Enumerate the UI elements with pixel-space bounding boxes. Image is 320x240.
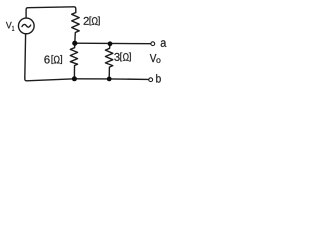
resistor R 2ohm zigzag (72, 13, 80, 44)
label 6[ohm] (44, 55, 62, 64)
wire bottom: to terminal b (74, 78, 148, 81)
label 3[ohm] (114, 53, 130, 62)
label 2[ohm] (84, 17, 100, 26)
junction node: 3ohm top (108, 41, 113, 46)
junction node: 2ohm bottom / 6ohm top (72, 41, 77, 46)
label a (161, 40, 167, 47)
wire middle: node to terminal a (75, 42, 151, 45)
terminal a circle (151, 42, 155, 46)
source V1 circle (18, 18, 34, 34)
wire top: source top to R 2ohm top (26, 7, 76, 18)
label Vo (150, 54, 161, 63)
resistor R 3ohm zigzag (105, 44, 112, 79)
resistor R 6ohm zigzag (70, 43, 77, 79)
wire left: source bottom to bottom rail (25, 34, 75, 81)
junction node: 6ohm bottom (72, 76, 77, 81)
source sine symbol (22, 24, 31, 27)
junction node: 3ohm bottom (107, 77, 112, 82)
label V1 (6, 22, 14, 31)
label b (156, 74, 161, 83)
terminal b circle (149, 78, 153, 82)
